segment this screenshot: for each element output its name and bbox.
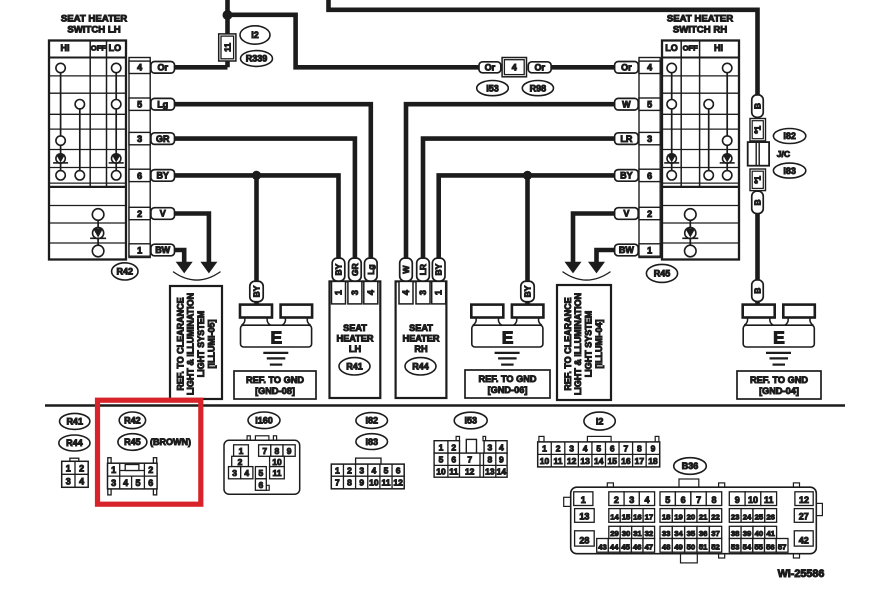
RH switch contacts row pin4 [667, 63, 732, 72]
svg-text:R45: R45 [124, 437, 141, 447]
junction C BY-RH [523, 171, 532, 180]
svg-text:45: 45 [621, 543, 630, 552]
connector R42 reference oval [112, 263, 138, 280]
svg-text:9: 9 [359, 478, 364, 488]
svg-text:6: 6 [396, 466, 401, 476]
svg-text:BY: BY [334, 263, 344, 275]
svg-text:2: 2 [137, 209, 142, 219]
svg-text:3: 3 [488, 442, 493, 452]
svg-text:BY: BY [620, 171, 633, 181]
svg-text:WI-25586: WI-25586 [778, 568, 825, 580]
svg-text:3: 3 [569, 444, 574, 454]
connector R42/R45 pinout [108, 458, 158, 495]
svg-text:R42: R42 [117, 267, 134, 277]
svg-text:BW: BW [155, 245, 170, 255]
arc LH off-page connector [173, 272, 221, 280]
LH switch connector pin column [129, 58, 150, 258]
svg-text:SEAT: SEAT [343, 323, 367, 333]
svg-text:J/C: J/C [777, 149, 790, 159]
svg-text:SWITCH LH: SWITCH LH [67, 25, 120, 36]
svg-text:Or: Or [534, 63, 545, 73]
svg-text:HEATER: HEATER [336, 334, 373, 344]
svg-text:HI: HI [61, 43, 70, 53]
svg-text:36: 36 [699, 529, 708, 538]
svg-text:5: 5 [384, 466, 389, 476]
svg-text:8: 8 [637, 444, 642, 454]
svg-text:39: 39 [743, 529, 752, 538]
highlight box red [98, 400, 201, 504]
svg-text:3: 3 [350, 290, 360, 295]
svg-text:SEAT: SEAT [409, 323, 433, 333]
svg-text:6: 6 [610, 444, 615, 454]
ground E GND-08 [240, 305, 312, 365]
svg-text:BY: BY [156, 171, 169, 181]
svg-text:11: 11 [764, 495, 774, 505]
svg-text:10: 10 [369, 478, 379, 488]
connector i53 reference oval [477, 81, 509, 96]
svg-text:[GND-06]: [GND-06] [488, 385, 528, 395]
svg-text:SWITCH RH: SWITCH RH [673, 25, 727, 36]
svg-text:4: 4 [79, 476, 84, 486]
connector i2 reference oval top [240, 26, 270, 44]
svg-text:43: 43 [598, 543, 607, 552]
svg-text:1: 1 [137, 245, 142, 255]
svg-text:(BROWN): (BROWN) [150, 437, 191, 447]
svg-text:Or: Or [485, 63, 496, 73]
svg-text:2: 2 [614, 495, 619, 505]
svg-text:19: 19 [674, 513, 683, 522]
svg-text:1: 1 [581, 495, 586, 505]
svg-text:11: 11 [222, 43, 232, 52]
wire battery feed 2 top run to joint connector [329, 0, 758, 96]
svg-text:8: 8 [275, 446, 280, 456]
svg-text:9: 9 [499, 455, 504, 465]
svg-text:B: B [753, 199, 763, 205]
svg-text:LIGHT & ILLUMINATION: LIGHT & ILLUMINATION [186, 293, 196, 395]
svg-text:30: 30 [622, 529, 631, 538]
connector i160 legend oval [248, 412, 280, 429]
LH switch wire labels [151, 62, 175, 256]
wire Or branch to RH via connector 4 [228, 15, 479, 68]
connector 11 fuse box T1 [219, 34, 236, 61]
svg-text:18: 18 [662, 513, 671, 522]
svg-text:51: 51 [699, 543, 708, 552]
svg-text:8: 8 [347, 478, 352, 488]
svg-text:i82: i82 [783, 131, 796, 141]
svg-text:RH: RH [414, 344, 428, 354]
switch R42 seat-heater-switch-LH body [49, 41, 126, 260]
connector i82 reference oval [773, 129, 805, 144]
svg-text:9: 9 [287, 446, 292, 456]
svg-text:SEAT HEATER: SEAT HEATER [61, 14, 127, 25]
svg-text:12: 12 [799, 495, 809, 505]
svg-text:2: 2 [347, 466, 352, 476]
arrow V RH [565, 262, 582, 274]
svg-text:REF. TO CLEARANCE: REF. TO CLEARANCE [563, 297, 573, 390]
svg-text:52: 52 [711, 543, 720, 552]
svg-text:W: W [622, 99, 631, 109]
svg-text:[GND-08]: [GND-08] [255, 386, 295, 396]
svg-text:6: 6 [451, 455, 456, 465]
arrow BW RH [588, 262, 605, 274]
connector i83 reference oval [773, 163, 805, 178]
svg-text:14: 14 [594, 456, 604, 466]
svg-text:i82: i82 [365, 416, 378, 426]
svg-text:HEATER: HEATER [402, 334, 439, 344]
svg-text:22: 22 [711, 513, 720, 522]
svg-text:V: V [160, 209, 166, 219]
connector i2 pinout [538, 436, 660, 467]
svg-text:55: 55 [754, 543, 763, 552]
svg-text:3: 3 [137, 134, 142, 144]
svg-text:8: 8 [711, 495, 716, 505]
svg-text:REF. TO GND: REF. TO GND [750, 375, 808, 385]
svg-text:*1: *1 [754, 125, 763, 133]
svg-text:20: 20 [687, 513, 696, 522]
wire GR LH pin3 to heater LH pin3 [175, 139, 355, 259]
connector R339 reference oval [241, 51, 273, 67]
RH switch contacts row pin6 [667, 171, 732, 180]
wire label B below junction block [752, 191, 764, 213]
RH switch connector pin column [639, 58, 660, 258]
junction A battery/Or [223, 10, 233, 20]
svg-text:48: 48 [662, 543, 671, 552]
svg-text:32: 32 [645, 529, 654, 538]
svg-text:7: 7 [262, 446, 267, 456]
svg-text:44: 44 [610, 543, 619, 552]
svg-text:7: 7 [335, 478, 340, 488]
svg-text:9: 9 [735, 495, 740, 505]
svg-text:4: 4 [123, 478, 128, 488]
svg-text:R339: R339 [246, 54, 268, 64]
svg-text:4: 4 [644, 495, 649, 505]
ref box clearance light ILLUMI-04 [557, 285, 611, 400]
svg-text:4: 4 [371, 466, 376, 476]
RH switch illumination contacts [682, 209, 698, 257]
svg-text:13: 13 [485, 467, 495, 477]
svg-text:16: 16 [621, 456, 631, 466]
svg-text:4: 4 [401, 290, 411, 295]
svg-text:31: 31 [633, 529, 642, 538]
svg-text:R44: R44 [412, 362, 429, 372]
svg-text:5: 5 [647, 100, 652, 110]
svg-text:46: 46 [633, 543, 642, 552]
svg-text:3: 3 [647, 134, 652, 144]
svg-text:Lg: Lg [157, 99, 168, 109]
svg-text:11: 11 [554, 456, 563, 466]
svg-text:5: 5 [135, 478, 140, 488]
svg-text:18: 18 [648, 456, 658, 466]
LH switch contacts row pin4 [56, 63, 121, 72]
svg-text:W: W [401, 265, 411, 274]
LH switch contacts row pin6 [56, 171, 121, 180]
svg-text:15: 15 [608, 456, 618, 466]
svg-text:1: 1 [647, 245, 652, 255]
wire label BY at ground GND-08 [250, 281, 263, 302]
svg-text:4: 4 [366, 290, 376, 295]
RH switch contacts row pin5 [667, 100, 713, 109]
svg-text:R42: R42 [124, 416, 141, 426]
svg-text:i160: i160 [255, 416, 273, 426]
svg-text:10: 10 [436, 467, 446, 477]
svg-text:1: 1 [111, 465, 116, 475]
svg-text:4: 4 [647, 63, 652, 73]
svg-text:35: 35 [687, 529, 696, 538]
RH switch contact row pin3 [723, 136, 732, 145]
svg-text:2: 2 [148, 465, 153, 475]
wire Lg LH pin5 to heater LH pin4 [175, 104, 371, 259]
connector R44 reference oval [405, 358, 436, 375]
svg-text:4: 4 [512, 63, 517, 73]
svg-text:5: 5 [259, 468, 264, 478]
separator line [45, 404, 845, 406]
svg-text:11: 11 [273, 468, 282, 478]
svg-text:42: 42 [799, 536, 809, 546]
svg-text:BY: BY [252, 285, 262, 297]
svg-text:3: 3 [111, 478, 116, 488]
svg-text:12: 12 [393, 478, 403, 488]
svg-text:i53: i53 [486, 83, 499, 93]
svg-text:B: B [753, 288, 763, 294]
svg-text:LIGHT SYSTEM: LIGHT SYSTEM [584, 311, 594, 378]
seat heater RH unit R44 [396, 281, 447, 398]
svg-text:3: 3 [66, 476, 71, 486]
svg-text:27: 27 [799, 512, 809, 522]
svg-text:3: 3 [418, 290, 428, 295]
wire LR RH pin3 to heater RH pin3 [423, 139, 615, 259]
svg-text:E: E [270, 328, 282, 348]
wire BY LH ground branch [254, 175, 259, 305]
svg-text:1: 1 [434, 290, 444, 295]
connector i82 legend oval [356, 413, 388, 429]
svg-text:28: 28 [579, 536, 589, 546]
svg-text:[ILLUMI-05]: [ILLUMI-05] [207, 320, 217, 369]
connector i82/i83 pinout [331, 458, 404, 489]
svg-text:GR: GR [350, 263, 360, 276]
svg-text:R41: R41 [66, 417, 83, 427]
svg-text:7: 7 [696, 495, 701, 505]
svg-text:SEAT HEATER: SEAT HEATER [667, 14, 733, 25]
svg-text:50: 50 [687, 543, 696, 552]
svg-text:E: E [773, 328, 785, 348]
svg-text:HI: HI [714, 43, 723, 53]
svg-text:LO: LO [665, 43, 678, 53]
wire V RH to illumination system [573, 214, 615, 263]
svg-text:5: 5 [439, 455, 444, 465]
svg-text:29: 29 [610, 529, 619, 538]
svg-text:13: 13 [579, 512, 589, 522]
connector R41 reference oval [339, 358, 370, 375]
svg-text:1: 1 [66, 463, 71, 473]
svg-text:LH: LH [349, 344, 362, 354]
svg-text:4: 4 [499, 442, 504, 452]
svg-text:R41: R41 [346, 362, 363, 372]
svg-text:6: 6 [647, 171, 652, 181]
connector i83 legend oval [356, 434, 388, 450]
svg-text:10: 10 [748, 495, 758, 505]
svg-text:2: 2 [647, 209, 652, 219]
connector R42 legend oval [119, 412, 145, 429]
svg-text:14: 14 [497, 467, 507, 477]
svg-text:10: 10 [272, 457, 282, 467]
svg-text:1: 1 [334, 290, 344, 295]
svg-text:REF. TO GND: REF. TO GND [478, 374, 536, 384]
arrow BW LH [176, 262, 193, 274]
svg-text:1: 1 [239, 446, 244, 456]
svg-text:8: 8 [488, 455, 493, 465]
svg-text:17: 17 [635, 456, 645, 466]
joint connector terminal *1 upper [750, 119, 766, 141]
svg-text:GR: GR [156, 134, 170, 144]
LH switch contacts row pin5 [75, 100, 121, 109]
svg-text:R44: R44 [66, 438, 83, 448]
seat heater LH unit R41 [330, 281, 381, 398]
connector B36 pinout [564, 479, 823, 563]
svg-text:3: 3 [232, 468, 237, 478]
svg-text:Or: Or [621, 63, 632, 73]
svg-text:6: 6 [137, 171, 142, 181]
svg-text:[GND-04]: [GND-04] [759, 386, 799, 396]
svg-text:21: 21 [699, 513, 708, 522]
connector i2 legend oval [584, 412, 615, 430]
switch R45 seat-heater-switch-RH body [662, 41, 739, 260]
svg-text:40: 40 [755, 529, 764, 538]
svg-text:5: 5 [137, 100, 142, 110]
svg-text:5: 5 [596, 444, 601, 454]
svg-text:14: 14 [610, 513, 619, 522]
LH switch contact stems [61, 71, 117, 247]
junction B BY-LH [252, 171, 261, 180]
svg-text:R45: R45 [654, 269, 671, 279]
connector B36 legend oval [674, 458, 707, 475]
svg-text:1: 1 [439, 442, 444, 452]
svg-text:BY: BY [434, 263, 444, 275]
wire W RH pin5 to heater RH pin4 [406, 104, 615, 259]
svg-text:15: 15 [622, 513, 631, 522]
wire battery feed vertical to LH junction [225, 0, 230, 67]
svg-text:16: 16 [633, 513, 642, 522]
wire V LH to illumination system [175, 214, 209, 263]
svg-text:6: 6 [148, 478, 153, 488]
svg-text:LIGHT SYSTEM: LIGHT SYSTEM [196, 311, 206, 378]
wire BY LH pin6 to heater LH pin1 [175, 175, 339, 259]
svg-text:23: 23 [731, 513, 740, 522]
svg-text:25: 25 [755, 513, 764, 522]
svg-text:REF. TO GND: REF. TO GND [246, 375, 304, 385]
svg-text:R98: R98 [530, 83, 547, 93]
svg-text:OFF: OFF [683, 44, 699, 53]
svg-text:REF. TO CLEARANCE: REF. TO CLEARANCE [175, 297, 185, 390]
svg-text:38: 38 [731, 529, 740, 538]
svg-text:2: 2 [238, 457, 243, 467]
wire label B above junction block [752, 95, 764, 117]
svg-text:V: V [623, 209, 629, 219]
svg-text:7: 7 [467, 455, 472, 465]
wire BY RH pin6 to heater RH pin1 [439, 175, 615, 259]
connector i53 pinout [434, 436, 507, 477]
svg-text:56: 56 [766, 543, 775, 552]
ground E GND-04 [743, 305, 815, 365]
svg-text:i83: i83 [365, 437, 378, 447]
wire BW RH to illumination system [597, 250, 615, 262]
heater RH wire labels W LR BY [400, 258, 445, 281]
svg-text:5: 5 [665, 495, 670, 505]
svg-text:26: 26 [766, 513, 775, 522]
svg-text:E: E [502, 328, 514, 348]
svg-text:4: 4 [583, 444, 588, 454]
connector R45 reference oval [646, 264, 677, 282]
LH switch wiper arrows [53, 154, 124, 163]
svg-text:OFF: OFF [91, 44, 107, 53]
svg-text:3: 3 [629, 495, 634, 505]
svg-text:LIGHT & ILLUMINATION: LIGHT & ILLUMINATION [573, 293, 583, 395]
svg-text:10: 10 [540, 456, 550, 466]
ref box clearance light ILLUMI-05 [170, 286, 222, 399]
svg-text:1: 1 [335, 466, 340, 476]
svg-text:12: 12 [567, 456, 577, 466]
joint connector terminal *1 lower [750, 169, 766, 191]
svg-text:LR: LR [418, 264, 428, 275]
svg-text:34: 34 [674, 529, 683, 538]
svg-text:4: 4 [137, 63, 142, 73]
svg-text:Or: Or [157, 63, 168, 73]
svg-text:3: 3 [359, 466, 364, 476]
LH switch contact row pin3 [56, 136, 65, 145]
wire Or LH switch pin4 [175, 65, 228, 70]
svg-text:1: 1 [542, 444, 547, 454]
connector i160 pinout [224, 436, 300, 494]
ground E GND-06 [471, 305, 543, 365]
connector R41 legend oval [59, 413, 89, 429]
svg-text:LR: LR [620, 134, 632, 144]
svg-text:17: 17 [645, 513, 654, 522]
wire Or between connector and RH switch [551, 65, 614, 70]
svg-text:i83: i83 [783, 166, 796, 176]
svg-text:11: 11 [382, 478, 391, 488]
svg-text:i53: i53 [464, 416, 477, 426]
svg-text:Lg: Lg [366, 264, 376, 274]
svg-text:57: 57 [778, 543, 787, 552]
svg-text:12: 12 [465, 467, 475, 477]
RH switch contact stems [672, 71, 728, 247]
svg-text:49: 49 [674, 543, 683, 552]
svg-text:47: 47 [645, 543, 654, 552]
ref box GND-08 [234, 371, 316, 399]
svg-text:6: 6 [259, 480, 264, 490]
svg-text:BY: BY [523, 285, 533, 297]
heater LH wire labels BY GR Lg [332, 258, 377, 281]
arc RH off-page connector [563, 272, 611, 280]
joint connector J/C body [748, 142, 769, 166]
ref box GND-06 [465, 370, 550, 398]
svg-text:[ILLUMI-04]: [ILLUMI-04] [594, 320, 604, 369]
svg-text:LO: LO [109, 43, 122, 53]
svg-text:B36: B36 [682, 461, 699, 471]
LH switch illumination contacts [90, 209, 106, 257]
wire BY RH ground branch [525, 175, 530, 305]
wire BW LH to illumination system [175, 250, 185, 262]
svg-text:7: 7 [623, 444, 628, 454]
svg-text:i2: i2 [251, 30, 259, 40]
connector R98 reference oval [522, 81, 553, 96]
arrow V LH [200, 262, 217, 274]
svg-text:37: 37 [711, 529, 720, 538]
svg-text:54: 54 [743, 543, 752, 552]
svg-text:41: 41 [766, 529, 775, 538]
svg-text:i2: i2 [596, 416, 604, 426]
ref box GND-04 [737, 371, 821, 399]
connector R45 legend oval [118, 434, 147, 451]
